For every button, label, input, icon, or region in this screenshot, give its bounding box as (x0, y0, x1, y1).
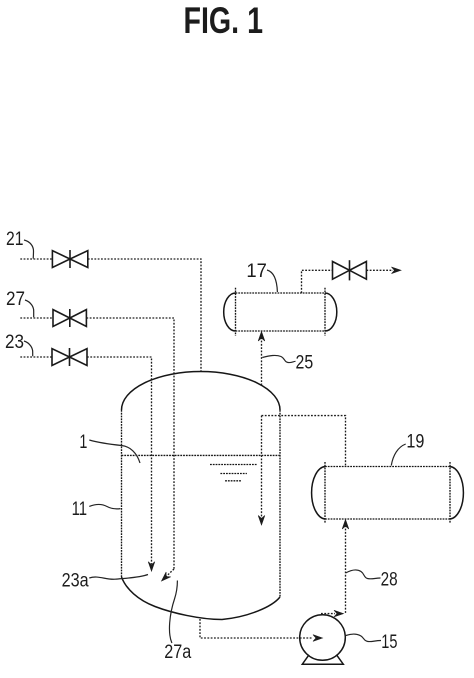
arrowhead 23a (down) (148, 562, 155, 572)
pump outlet tangent (321, 613, 335, 615)
pipe outlet to arrow (366, 269, 393, 271)
drum 17 right end line (324, 288, 326, 336)
svg-text:21: 21 (6, 229, 24, 250)
liquid surface mark 2 (220, 473, 247, 475)
drum 19 left cap (312, 467, 325, 520)
svg-text:19: 19 (406, 432, 424, 453)
arrowhead pump outlet (right) (334, 610, 344, 617)
svg-text:17: 17 (246, 261, 267, 282)
arrowhead 27a (down-left) (162, 572, 171, 581)
leader for 25 (262, 355, 295, 362)
pipe 28 pump to drum19 (345, 522, 347, 614)
pipe 25 inside vessel (261, 416, 263, 518)
drum 19 right cap (450, 467, 463, 520)
pipe 27 diagonal tip (163, 569, 174, 580)
drum 17 left cap (224, 293, 236, 331)
pipe from valve 21 to vessel top (88, 259, 201, 371)
arrowhead into drum19 (up) (342, 520, 349, 530)
arrowhead outlet (right) (392, 267, 402, 274)
svg-text:1: 1 (79, 432, 87, 453)
arrowhead into drum17 (up) (258, 332, 265, 342)
liquid surface mark 3 (225, 480, 241, 482)
valve outlet (top right) (333, 260, 367, 280)
pipe vessel to drum19 (262, 416, 346, 467)
svg-text:25: 25 (296, 353, 314, 374)
drum 17 top line (236, 292, 326, 294)
svg-text:27a: 27a (164, 642, 191, 663)
vessel 1 left wall (121, 410, 123, 577)
pump 15 circle (300, 615, 346, 661)
drum 19 left end line (324, 462, 326, 524)
leader for 1 (89, 440, 140, 463)
svg-text:11: 11 (72, 499, 88, 520)
arrowhead into pump (right) (313, 635, 323, 642)
valve 23 (52, 348, 87, 366)
pipe 25 vessel to drum17 (261, 334, 263, 386)
vessel 1 right wall (279, 410, 281, 597)
leader for 15 (346, 634, 381, 642)
leader for 17 (267, 270, 277, 292)
pipe vessel bottom to pump (200, 619, 312, 638)
leader for 23 (24, 341, 33, 356)
arrowhead pipe25 (down) (258, 516, 265, 526)
leader for 21 (24, 240, 34, 259)
svg-text:15: 15 (381, 632, 397, 653)
drum 17 bottom line (236, 330, 326, 332)
svg-text:27: 27 (6, 289, 25, 310)
leader for 28 (346, 570, 381, 579)
valve 27 (53, 309, 86, 327)
leader for 11 (89, 504, 120, 508)
drum 17 left end line (235, 288, 237, 336)
pipe drum17 top outlet (302, 270, 333, 293)
leader for 27a (169, 581, 177, 644)
valve 21 (52, 250, 87, 268)
vessel 1 top dome (122, 371, 281, 410)
vessel 1 bottom dome (122, 577, 281, 620)
pipe into valve 21 (20, 258, 52, 260)
pipe into valve 27 (20, 317, 53, 319)
leader for 23a (89, 575, 148, 580)
svg-text:FIG. 1: FIG. 1 (184, 0, 264, 41)
svg-text:23: 23 (5, 332, 24, 353)
pump base (302, 655, 343, 664)
drum 19 right end line (449, 462, 451, 524)
leader for 27 (25, 300, 34, 317)
pipe into valve 23 (20, 356, 52, 358)
pipe 23 from valve into vessel (87, 357, 152, 564)
leader for 19 (391, 444, 405, 466)
svg-text:23a: 23a (62, 571, 89, 592)
pipe 27 from valve into vessel (86, 318, 174, 569)
drum 19 top line (325, 466, 450, 468)
drum 17 right cap (325, 293, 337, 331)
drum 19 bottom line (325, 518, 450, 520)
liquid level line (122, 454, 281, 456)
liquid surface mark 1 (210, 464, 257, 466)
svg-text:28: 28 (381, 570, 398, 591)
